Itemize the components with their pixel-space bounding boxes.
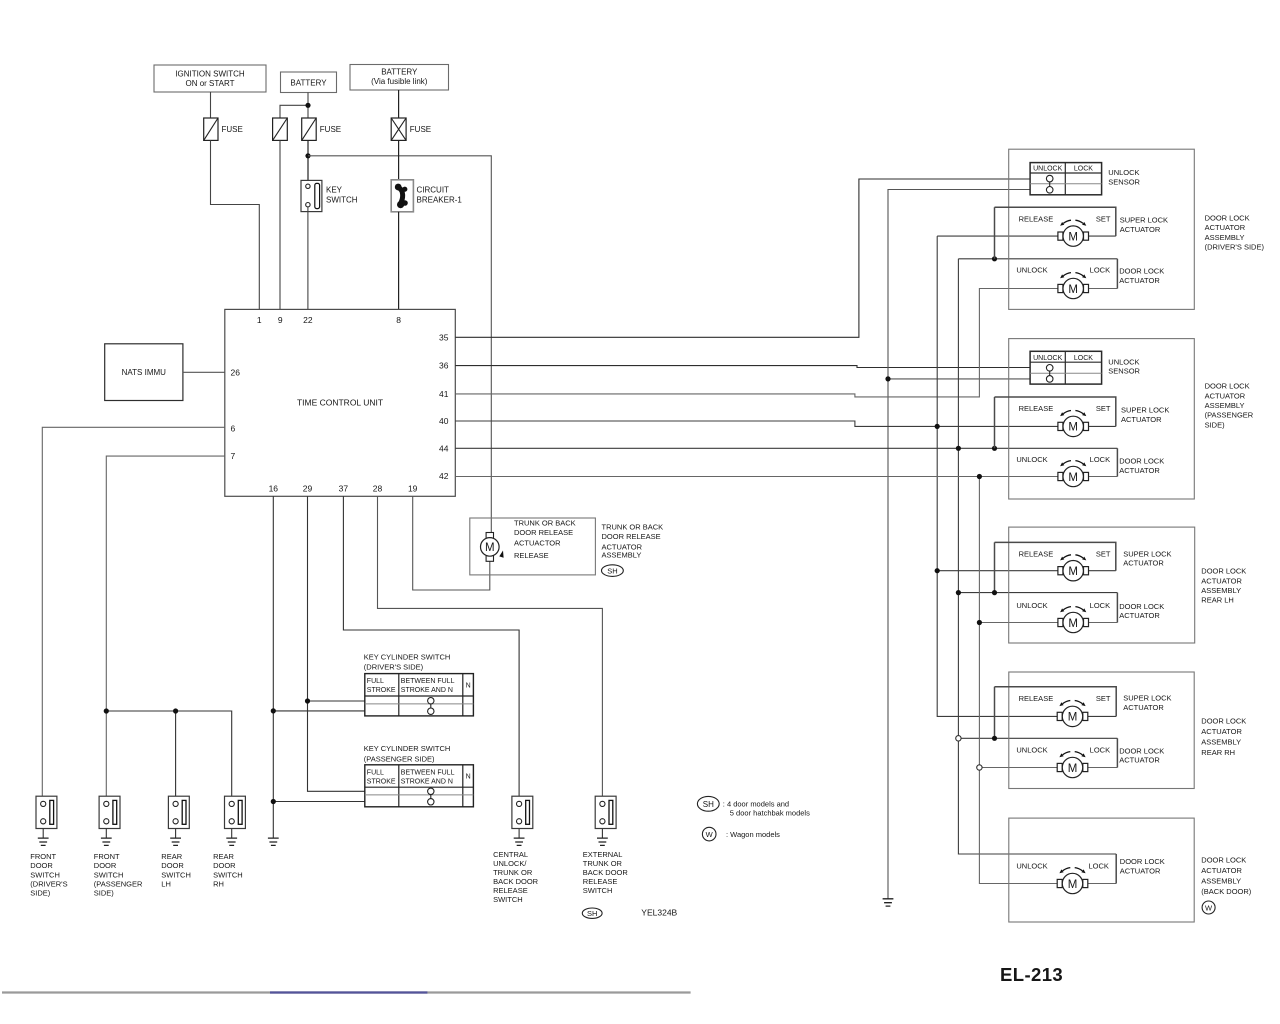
svg-text:(DRIVER'S SIDE): (DRIVER'S SIDE) — [364, 663, 424, 672]
door lock actuator 3 label — [1119, 602, 1164, 620]
svg-text:ASSEMBLY: ASSEMBLY — [1205, 401, 1245, 410]
wire fuse F4 to circuit breaker — [398, 140, 400, 182]
door lock actuator assembly back door outer box — [1009, 818, 1194, 922]
svg-text:37: 37 — [339, 484, 349, 494]
svg-text:UNLOCK: UNLOCK — [1108, 357, 1139, 366]
svg-text:26: 26 — [231, 367, 241, 377]
svg-text:BACK DOOR: BACK DOOR — [583, 868, 629, 877]
motor door lock 3 — [1058, 607, 1089, 633]
super lock actuator 4 box — [995, 687, 1117, 739]
unlock sensor table 2 — [1030, 351, 1102, 384]
central unlock trunk release switch — [512, 796, 533, 828]
svg-text:(DRIVER'S: (DRIVER'S — [30, 880, 67, 889]
svg-text:STROKE: STROKE — [367, 687, 396, 694]
svg-text:DOOR: DOOR — [213, 861, 236, 870]
svg-text:SENSOR: SENSOR — [1108, 367, 1140, 376]
svg-text:UNLOCK: UNLOCK — [1033, 355, 1063, 362]
ground rear door switch LH — [170, 838, 181, 845]
svg-text:SET: SET — [1096, 694, 1111, 703]
wire key switch to TCU pin 22 — [307, 207, 309, 310]
svg-text:SUPER LOCK: SUPER LOCK — [1123, 549, 1171, 558]
junction pin29 row1 driver — [305, 698, 310, 703]
wire TCU pin 44 unlock box net — [455, 259, 1117, 854]
svg-text:FULL: FULL — [367, 678, 384, 685]
svg-text:DOOR LOCK: DOOR LOCK — [1205, 382, 1250, 391]
motor trunk release — [481, 533, 504, 562]
svg-text:TIME CONTROL UNIT: TIME CONTROL UNIT — [297, 397, 383, 407]
svg-text:DOOR RELEASE: DOOR RELEASE — [602, 532, 661, 541]
svg-text:DOOR LOCK: DOOR LOCK — [1205, 213, 1250, 222]
svg-text:DOOR LOCK: DOOR LOCK — [1201, 567, 1246, 576]
ground rear door switch RH — [226, 838, 237, 845]
super lock actuator 3 box — [995, 542, 1116, 592]
wire fuse F3 to key switch — [307, 140, 309, 184]
super lock actuator 2 label — [1121, 406, 1169, 424]
svg-text:CIRCUIT: CIRCUIT — [417, 185, 450, 194]
wire switch to ground — [231, 829, 233, 839]
svg-text:BATTERY: BATTERY — [381, 68, 418, 77]
wire TCU pin 19 to trunk release motor — [413, 496, 490, 590]
svg-text:TRUNK OR: TRUNK OR — [583, 859, 623, 868]
motor super lock 1 — [1058, 220, 1089, 246]
svg-text:ACTUATOR: ACTUATOR — [1123, 703, 1164, 712]
svg-text:SWITCH: SWITCH — [583, 886, 613, 895]
motor door lock 5 — [1057, 868, 1088, 894]
trunk release actuator assembly label — [602, 523, 664, 577]
wire fuse F1 to TCU pin 1 — [211, 140, 260, 309]
svg-text:RH: RH — [213, 880, 224, 889]
door lock actuator 1 texts — [1016, 266, 1110, 275]
svg-text:UNLOCK: UNLOCK — [1016, 455, 1047, 464]
svg-text:SH: SH — [607, 566, 617, 575]
svg-text:STROKE AND N: STROKE AND N — [401, 687, 453, 694]
junction pin44 assembly2 release — [992, 446, 997, 451]
svg-text:DOOR: DOOR — [94, 861, 117, 870]
svg-text:KEY CYLINDER SWITCH: KEY CYLINDER SWITCH — [364, 652, 451, 661]
super lock actuator 3 label — [1123, 549, 1171, 567]
time control unit box — [225, 309, 455, 496]
door lock actuator 1 label — [1119, 267, 1164, 285]
svg-text:FRONT: FRONT — [30, 852, 56, 861]
wire switch to ground — [175, 829, 177, 839]
svg-text:RELEASE: RELEASE — [1019, 550, 1054, 559]
svg-text:UNLOCK: UNLOCK — [1016, 861, 1047, 870]
svg-text:DOOR LOCK: DOOR LOCK — [1201, 716, 1246, 725]
assembly driver side label — [1205, 213, 1265, 251]
svg-text:EXTERNAL: EXTERNAL — [583, 850, 623, 859]
door lock actuator 4 texts — [1016, 746, 1110, 755]
svg-text:ASSEMBLY: ASSEMBLY — [1201, 876, 1241, 885]
key cylinder switch passenger side table — [364, 744, 474, 807]
wire TCU pin 16 to key cylinder tables and ground — [273, 496, 365, 838]
svg-text:SUPER LOCK: SUPER LOCK — [1120, 216, 1168, 225]
svg-text:STROKE: STROKE — [367, 778, 396, 785]
junction pin42 rear LH — [977, 620, 982, 625]
svg-text:REAR: REAR — [213, 852, 234, 861]
svg-text:41: 41 — [439, 389, 449, 399]
door lock actuator 1 box right edge — [1116, 259, 1118, 289]
svg-text:ASSEMBLY: ASSEMBLY — [1205, 233, 1245, 242]
svg-text:29: 29 — [303, 484, 313, 494]
svg-text:W: W — [1205, 903, 1213, 912]
junction pin44 vertical — [956, 446, 961, 451]
svg-text:SENSOR: SENSOR — [1108, 177, 1140, 186]
super lock actuator 1 box — [995, 207, 1116, 259]
svg-text:SET: SET — [1096, 404, 1111, 413]
svg-text:ASSEMBLY: ASSEMBLY — [602, 551, 642, 560]
svg-text:UNLOCK: UNLOCK — [1108, 168, 1139, 177]
svg-text:FUSE: FUSE — [222, 125, 243, 134]
svg-text:ACTUACTOR: ACTUACTOR — [514, 538, 561, 547]
wire battery2 to fuse F4 — [398, 90, 400, 118]
wire TCU pin 7 to front door switch passenger — [106, 456, 225, 796]
svg-text:SIDE): SIDE) — [94, 889, 115, 898]
junction pin42 vertical — [977, 474, 982, 479]
wire TCU pin 41 to door lock actuator 1 — [455, 289, 1117, 397]
fuse F3 — [302, 118, 341, 140]
svg-text:N: N — [466, 774, 471, 781]
wire circuit breaker to TCU pin 8 — [398, 212, 400, 310]
svg-text:DOOR LOCK: DOOR LOCK — [1119, 267, 1164, 276]
svg-text:LH: LH — [161, 880, 171, 889]
wire fuse F2 to TCU pin 9 — [279, 140, 281, 309]
svg-text:16: 16 — [269, 484, 279, 494]
svg-text:SIDE): SIDE) — [1205, 420, 1226, 429]
svg-text:FULL: FULL — [367, 769, 384, 776]
svg-text:SWITCH: SWITCH — [161, 870, 191, 879]
wire battery down — [280, 93, 308, 119]
svg-text:BREAKER-1: BREAKER-1 — [417, 195, 463, 204]
connector circle pin44 rear RH — [956, 736, 961, 741]
super lock actuator 1 label — [1120, 216, 1168, 234]
door lock actuator 3 texts — [1016, 601, 1110, 610]
key switch S1 — [301, 180, 358, 211]
svg-text:(PASSENGER: (PASSENGER — [1205, 411, 1254, 420]
ground external trunk release switch — [597, 838, 608, 845]
svg-text:ON or START: ON or START — [185, 79, 234, 88]
junction pin40 vertical — [935, 424, 940, 429]
door lock actuator assembly driver side outer box — [1009, 149, 1195, 309]
svg-text:ACTUATOR: ACTUATOR — [1120, 225, 1161, 234]
battery box — [281, 72, 337, 93]
super lock actuator 4 label — [1123, 694, 1171, 712]
svg-text:YEL324B: YEL324B — [641, 907, 677, 917]
front door switch driver side — [36, 796, 57, 828]
svg-text:ACTUATOR: ACTUATOR — [1123, 559, 1164, 568]
svg-text:SWITCH: SWITCH — [30, 870, 60, 879]
svg-text:FUSE: FUSE — [410, 125, 431, 134]
wire switch to ground — [518, 829, 520, 839]
footer line — [2, 991, 691, 993]
svg-text:LOCK: LOCK — [1090, 601, 1110, 610]
svg-text:DOOR: DOOR — [30, 861, 53, 870]
svg-text:7: 7 — [231, 451, 236, 461]
motor door lock 1 — [1058, 273, 1089, 299]
svg-text:UNLOCK/: UNLOCK/ — [493, 859, 527, 868]
junction pin44 assembly1 release — [992, 256, 997, 261]
svg-text:DOOR LOCK: DOOR LOCK — [1119, 747, 1164, 756]
svg-text:UNLOCK: UNLOCK — [1016, 266, 1047, 275]
svg-text:35: 35 — [439, 332, 449, 342]
junction pin16 row2 passenger — [271, 799, 276, 804]
svg-text:TRUNK OR: TRUNK OR — [493, 868, 533, 877]
svg-text:ACTUATOR: ACTUATOR — [1205, 391, 1246, 400]
wire ignition to fuse — [210, 92, 212, 118]
svg-text:BACK DOOR: BACK DOOR — [493, 877, 539, 886]
junction pin40 rear LH — [935, 568, 940, 573]
connector circle pin42 rear RH — [977, 765, 982, 770]
assembly rear LH label — [1201, 567, 1246, 605]
svg-text:LOCK: LOCK — [1090, 746, 1110, 755]
wire pin 7 branch to rear door switches — [106, 711, 231, 796]
svg-text:SWITCH: SWITCH — [326, 195, 358, 204]
svg-text:SET: SET — [1096, 550, 1111, 559]
wire TCU pin 29 to key cylinder tables — [308, 496, 366, 791]
external trunk release switch — [595, 796, 616, 828]
svg-text:(Via fusible link): (Via fusible link) — [371, 77, 428, 86]
junction pin44 rear LH — [956, 590, 961, 595]
ground central unlock switch — [514, 838, 525, 845]
svg-text:SUPER LOCK: SUPER LOCK — [1123, 694, 1171, 703]
svg-text:ACTUATOR: ACTUATOR — [1205, 223, 1246, 232]
trunk or back door release actuator assembly box — [470, 518, 596, 575]
svg-text:44: 44 — [439, 443, 449, 453]
svg-text:9: 9 — [278, 315, 283, 325]
svg-text:SUPER LOCK: SUPER LOCK — [1121, 406, 1169, 415]
unlock sensor table 1 — [1030, 163, 1102, 195]
door lock actuator 2 label — [1119, 457, 1164, 475]
svg-text:RELEASE: RELEASE — [583, 877, 618, 886]
svg-text:IGNITION SWITCH: IGNITION SWITCH — [175, 69, 245, 78]
svg-text:ACTUATOR: ACTUATOR — [1121, 415, 1162, 424]
svg-text:19: 19 — [408, 484, 418, 494]
svg-text:(BACK DOOR): (BACK DOOR) — [1201, 887, 1252, 896]
circuit breaker CB1 — [391, 180, 462, 212]
svg-text:5 door hatchbak models: 5 door hatchbak models — [730, 808, 810, 817]
svg-text:RELEASE: RELEASE — [1019, 214, 1054, 223]
rear door switch LH — [168, 796, 189, 828]
svg-text:: 4 door models and: : 4 door models and — [723, 799, 789, 808]
junction battery branch — [305, 103, 310, 108]
junction pin7 branch — [104, 708, 109, 713]
junction pin16 row2 driver — [271, 708, 276, 713]
door lock actuator 4 label — [1119, 747, 1164, 765]
rear door switch RH — [225, 796, 246, 828]
door lock actuator 5 box right edge — [1115, 854, 1117, 884]
svg-text:LOCK: LOCK — [1090, 455, 1110, 464]
svg-text:TRUNK OR BACK: TRUNK OR BACK — [514, 518, 576, 527]
svg-text:W: W — [706, 830, 714, 839]
svg-text:DOOR LOCK: DOOR LOCK — [1201, 855, 1246, 864]
svg-text:EL-213: EL-213 — [1000, 964, 1063, 985]
svg-text:SWITCH: SWITCH — [213, 870, 243, 879]
wire TCU pin 37 to central unlock switch — [343, 496, 519, 796]
svg-text:REAR LH: REAR LH — [1201, 596, 1234, 605]
svg-text:LOCK: LOCK — [1074, 166, 1093, 173]
unlock sensor 1 label — [1108, 168, 1140, 186]
svg-text:LOCK: LOCK — [1088, 861, 1108, 870]
motor door lock 2 — [1058, 461, 1089, 487]
svg-text:ASSEMBLY: ASSEMBLY — [1201, 737, 1241, 746]
svg-text:SIDE): SIDE) — [30, 889, 51, 898]
svg-text:40: 40 — [439, 416, 449, 426]
junction rear LH branch — [173, 708, 178, 713]
svg-text:N: N — [466, 682, 471, 689]
wire branch to trunk release actuator — [308, 156, 491, 539]
key cylinder switch driver side table — [364, 652, 474, 716]
svg-text:SWITCH: SWITCH — [94, 870, 124, 879]
motor door lock 4 — [1057, 752, 1088, 778]
svg-text:DOOR LOCK: DOOR LOCK — [1119, 602, 1164, 611]
fuse F4 (fusible link) — [391, 118, 431, 140]
svg-text:BETWEEN FULL: BETWEEN FULL — [401, 769, 455, 776]
svg-text:ACTUATOR: ACTUATOR — [1201, 866, 1242, 875]
svg-text:BETWEEN FULL: BETWEEN FULL — [401, 678, 455, 685]
super lock actuator 2 box — [995, 397, 1116, 448]
svg-text:UNLOCK: UNLOCK — [1016, 746, 1047, 755]
junction pin44 assembly4 release — [992, 736, 997, 741]
svg-text:RELEASE: RELEASE — [1019, 404, 1054, 413]
svg-text:ACTUATOR: ACTUATOR — [1119, 466, 1160, 475]
ground sensor common — [883, 899, 894, 906]
wire sensor ground net — [888, 190, 1030, 899]
legend W marker — [702, 827, 780, 841]
junction key switch branch — [305, 153, 310, 158]
wire switch to ground — [42, 829, 44, 839]
svg-text:UNLOCK: UNLOCK — [1016, 601, 1047, 610]
battery (via fusible link) box — [350, 65, 449, 91]
front door switch passenger side — [99, 796, 120, 828]
svg-text:RELEASE: RELEASE — [493, 886, 528, 895]
wire TCU pin 40 super lock net — [455, 236, 1116, 716]
motor super lock 2 — [1058, 411, 1089, 437]
svg-text:SWITCH: SWITCH — [493, 895, 523, 904]
svg-text:ACTUATOR: ACTUATOR — [1201, 727, 1242, 736]
door lock actuator 2 texts — [1016, 455, 1110, 464]
assembly back door label — [1201, 855, 1252, 914]
svg-text:FUSE: FUSE — [320, 125, 341, 134]
door lock actuator 5 label — [1120, 857, 1165, 876]
ground front door switch passenger — [101, 838, 112, 845]
svg-text:DOOR LOCK: DOOR LOCK — [1119, 457, 1164, 466]
ignition switch box — [154, 65, 266, 92]
unlock sensor 2 label — [1108, 357, 1140, 375]
wire switch to ground — [601, 829, 603, 839]
svg-text:DOOR: DOOR — [161, 861, 184, 870]
junction ground net sensor 2 — [885, 376, 890, 381]
svg-text:BATTERY: BATTERY — [290, 78, 327, 87]
wire NATS IMMU to TCU pin 26 — [183, 371, 225, 373]
door lock actuator assembly rear RH outer box — [1009, 672, 1194, 789]
svg-text:ACTUATOR: ACTUATOR — [1119, 611, 1160, 620]
svg-text:REAR: REAR — [161, 852, 182, 861]
wire TCU pin 42 door lock net — [455, 477, 1117, 884]
svg-text:42: 42 — [439, 471, 449, 481]
svg-text:22: 22 — [303, 315, 313, 325]
svg-text:KEY: KEY — [326, 185, 343, 194]
svg-text:UNLOCK: UNLOCK — [1033, 166, 1063, 173]
svg-text:8: 8 — [396, 315, 401, 325]
svg-text:28: 28 — [373, 484, 383, 494]
svg-text:ASSEMBLY: ASSEMBLY — [1201, 586, 1241, 595]
svg-text:36: 36 — [439, 361, 449, 371]
assembly passenger side label — [1205, 382, 1254, 430]
svg-text:DOOR LOCK: DOOR LOCK — [1120, 857, 1165, 866]
door lock actuator assembly passenger side outer box — [1009, 339, 1195, 499]
door lock actuator 5 texts — [1016, 861, 1109, 870]
svg-text:REAR RH: REAR RH — [1201, 748, 1235, 757]
ground pin16 — [268, 838, 279, 845]
svg-text:SH: SH — [703, 800, 714, 809]
svg-text:KEY CYLINDER SWITCH: KEY CYLINDER SWITCH — [364, 744, 451, 753]
svg-text:SET: SET — [1096, 214, 1111, 223]
svg-text:NATS IMMU: NATS IMMU — [122, 368, 167, 377]
motor super lock 3 — [1058, 555, 1089, 581]
svg-text:ACTUATOR: ACTUATOR — [1119, 756, 1160, 765]
fuse F1 ignition — [204, 118, 243, 140]
door lock actuator 4 box right edge — [1116, 738, 1118, 767]
ground front door switch driver — [38, 838, 49, 845]
svg-text:SH: SH — [587, 909, 597, 918]
wire TCU pin 28 to external trunk release switch — [378, 496, 603, 796]
svg-text:CENTRAL: CENTRAL — [493, 850, 528, 859]
door lock actuator 3 box right edge — [1116, 593, 1118, 623]
svg-text:LOCK: LOCK — [1090, 266, 1110, 275]
svg-text:: Wagon models: : Wagon models — [726, 830, 780, 839]
svg-text:STROKE AND N: STROKE AND N — [401, 778, 453, 785]
svg-text:ACTUATOR: ACTUATOR — [1120, 867, 1161, 876]
wire switch to ground — [105, 829, 107, 839]
fuse F2 — [273, 118, 288, 140]
svg-text:FRONT: FRONT — [94, 852, 120, 861]
legend SH marker — [697, 796, 810, 817]
svg-text:ACTUATOR: ACTUATOR — [1119, 276, 1160, 285]
svg-text:(PASSENGER: (PASSENGER — [94, 880, 143, 889]
svg-text:6: 6 — [231, 424, 236, 434]
svg-text:LOCK: LOCK — [1074, 355, 1093, 362]
svg-text:ACTUATOR: ACTUATOR — [1201, 576, 1242, 585]
motor super lock 4 — [1057, 701, 1088, 727]
svg-text:DOOR RELEASE: DOOR RELEASE — [514, 528, 573, 537]
svg-text:(PASSENGER SIDE): (PASSENGER SIDE) — [364, 754, 435, 763]
svg-text:RELEASE: RELEASE — [1019, 694, 1054, 703]
svg-text:(DRIVER'S SIDE): (DRIVER'S SIDE) — [1205, 243, 1265, 252]
svg-text:RELEASE: RELEASE — [514, 551, 549, 560]
wire TCU pin 6 to front door switch driver — [42, 427, 225, 796]
door lock actuator assembly rear LH outer box — [1009, 527, 1195, 643]
svg-text:TRUNK OR BACK: TRUNK OR BACK — [602, 523, 664, 532]
NATS IMMU box — [105, 344, 183, 401]
assembly rear RH label — [1201, 716, 1246, 757]
wire TCU pin 36 to unlock sensor 2 — [455, 366, 1030, 368]
junction pin44 assembly3 release — [992, 590, 997, 595]
wire TCU pin 35 to unlock sensor 1 — [455, 179, 1030, 337]
door lock actuator 2 box right edge — [1116, 448, 1118, 476]
svg-text:1: 1 — [257, 315, 262, 325]
